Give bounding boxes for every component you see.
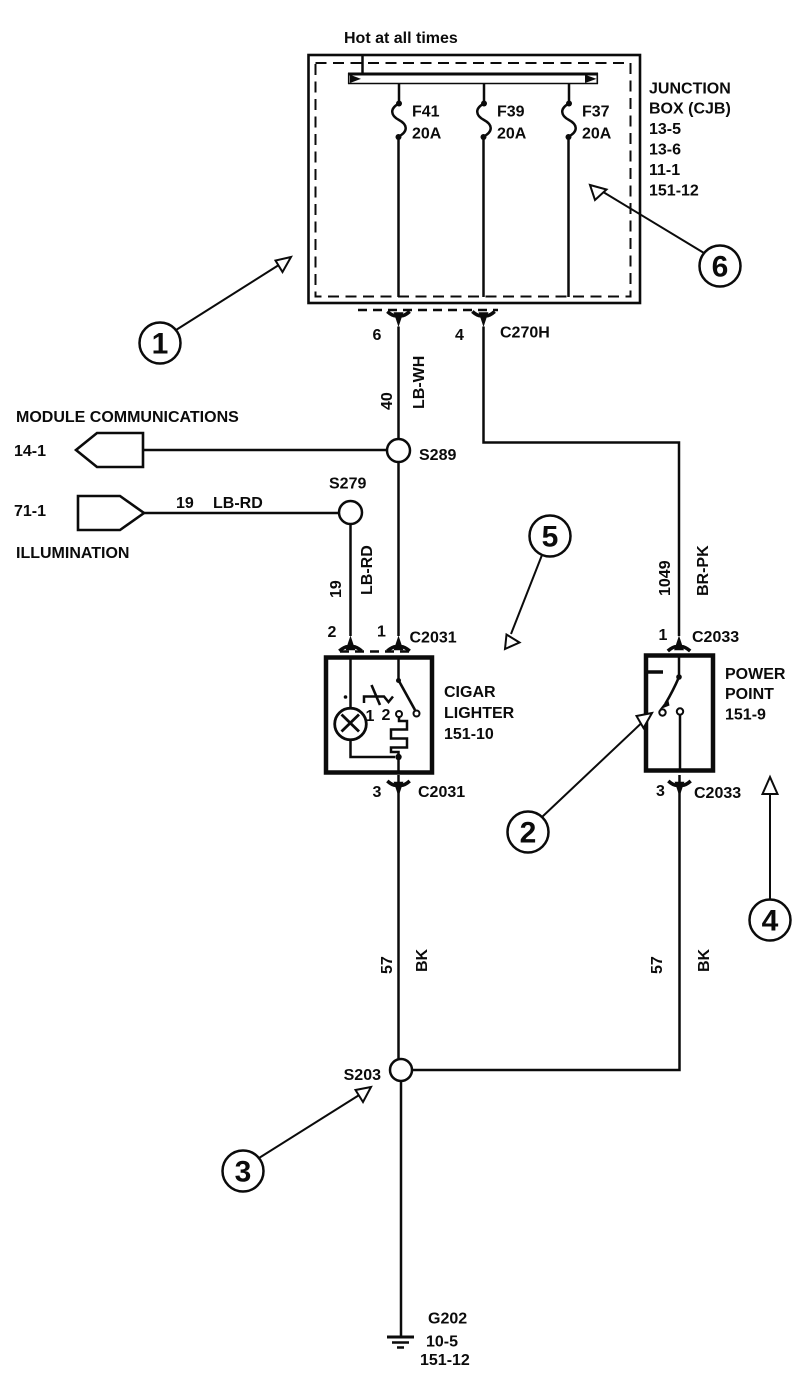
wire from C270H pin 6 to splice S289 [397, 327, 400, 440]
callout 6 [590, 185, 741, 287]
wire module communications to S289 [143, 449, 387, 452]
connector C2031 dashed line [340, 650, 412, 653]
svg-text:BK: BK [696, 948, 713, 972]
label CIGAR LIGHTER 151-10 [444, 684, 515, 743]
splice S289 [387, 439, 410, 462]
connector C2031 pin 3 arrow [387, 781, 409, 797]
svg-text:14-1: 14-1 [14, 443, 46, 460]
svg-text:LB-WH: LB-WH [411, 356, 428, 409]
connector C2031 pin 2 arrow [339, 636, 361, 652]
svg-text:POWER: POWER [725, 666, 786, 683]
wire illumination to S279 [144, 512, 339, 515]
svg-text:S279: S279 [329, 476, 366, 493]
wire S289 down to C2031 pin 1 [397, 462, 400, 636]
label POWER POINT 151-9 [725, 666, 786, 724]
callout 5 [505, 516, 571, 650]
connector C270H pin 4 arrow [472, 312, 494, 328]
lamp bottom wire [351, 740, 396, 757]
wire from C270H pin 4 to power point pin 1 [484, 327, 680, 637]
thermal contact slash [372, 685, 381, 705]
blade arrow tip [660, 699, 670, 710]
wire cigar lighter to S203 [397, 775, 400, 1059]
svg-text:BR-PK: BR-PK [695, 545, 712, 596]
svg-text:1: 1 [366, 708, 375, 725]
wire center terminal to box bottom [679, 715, 682, 771]
svg-text:ILLUMINATION: ILLUMINATION [16, 545, 129, 562]
svg-text:151-12: 151-12 [420, 1352, 470, 1369]
svg-text:3: 3 [235, 1156, 252, 1189]
callout 3 [223, 1087, 372, 1192]
connector C2031 pin 1 arrow [387, 636, 409, 652]
svg-text:F39: F39 [497, 104, 525, 121]
svg-text:57: 57 [649, 956, 666, 974]
svg-text:C2033: C2033 [694, 785, 741, 802]
splice S279 [339, 501, 362, 524]
svg-text:1: 1 [377, 624, 386, 641]
module communications off-page connector [76, 433, 143, 467]
center terminal circle [677, 708, 683, 714]
svg-text:MODULE COMMUNICATIONS: MODULE COMMUNICATIONS [16, 409, 239, 426]
connector C2033 pin 1 arrow [668, 636, 690, 652]
svg-text:2: 2 [520, 817, 537, 850]
switch terminal circle right [414, 711, 420, 717]
svg-text:2: 2 [328, 624, 337, 641]
power point switch blade [666, 677, 680, 704]
element terminal circle [396, 711, 402, 717]
power point pin1 internal wire [678, 656, 681, 676]
svg-text:13-5: 13-5 [649, 121, 681, 138]
switch blade [400, 682, 416, 710]
svg-text:4: 4 [455, 327, 464, 344]
svg-text:CIGAR: CIGAR [444, 684, 496, 701]
svg-text:20A: 20A [582, 126, 612, 143]
svg-text:C2031: C2031 [410, 630, 457, 647]
svg-text:POINT: POINT [725, 686, 774, 703]
svg-text:F41: F41 [412, 104, 440, 121]
power point contact bar [646, 670, 663, 674]
svg-text:S289: S289 [419, 447, 456, 464]
junction box outer solid border [309, 55, 641, 303]
blade terminal circle [659, 709, 665, 715]
fuse F41 20A [392, 84, 442, 297]
svg-text:151-10: 151-10 [444, 726, 494, 743]
svg-text:1049: 1049 [657, 560, 674, 596]
svg-text:19: 19 [328, 580, 345, 598]
svg-text:20A: 20A [497, 126, 527, 143]
svg-text:BOX (CJB): BOX (CJB) [649, 101, 731, 118]
thermal contact bar [364, 697, 393, 704]
bus bar [348, 73, 598, 84]
svg-text:LB-RD: LB-RD [359, 545, 376, 595]
fuse F39 20A [477, 84, 527, 297]
svg-text:151-9: 151-9 [725, 707, 766, 724]
connector C270H dashed line [358, 309, 498, 312]
switch pivot dot [676, 674, 682, 680]
splice S203 [390, 1059, 412, 1081]
svg-text:BK: BK [414, 948, 431, 972]
callout 4 [750, 777, 791, 941]
svg-text:G202: G202 [428, 1311, 467, 1328]
wire power point to S203 wire [412, 775, 680, 1070]
svg-text:Hot at all times: Hot at all times [344, 30, 458, 47]
svg-text:19: 19 [176, 495, 194, 512]
wire S279 down to C2031 pin 2 [349, 524, 352, 636]
svg-text:40: 40 [379, 392, 396, 410]
svg-text:C2033: C2033 [692, 629, 739, 646]
cigar lighter pin1 internal wire [397, 658, 400, 680]
svg-text:13-6: 13-6 [649, 142, 681, 159]
wire stub from box top to bus bar [361, 56, 364, 74]
callout 2 [508, 713, 653, 853]
svg-text:11-1: 11-1 [649, 162, 680, 179]
svg-text:1: 1 [659, 627, 668, 644]
callout 1 [140, 257, 292, 364]
power point box [646, 656, 713, 771]
svg-text:71-1: 71-1 [14, 503, 46, 520]
cigar lighter pin2 internal wire [349, 658, 352, 709]
ground G202 symbol [387, 1337, 414, 1348]
fuse F37 20A [562, 84, 612, 297]
connector C2033 pin 3 arrow [668, 781, 690, 797]
element bottom dot [395, 754, 401, 760]
cigar lighter box [326, 658, 432, 773]
svg-text:S203: S203 [344, 1067, 381, 1084]
svg-text:151-12: 151-12 [649, 183, 699, 200]
cigar lighter lamp [335, 708, 367, 740]
junction box name text [649, 81, 731, 200]
svg-text:57: 57 [379, 956, 396, 974]
svg-text:C2031: C2031 [418, 784, 465, 801]
svg-text:5: 5 [542, 521, 559, 554]
heating element [391, 717, 407, 757]
switch pivot dot [396, 678, 401, 683]
svg-text:20A: 20A [412, 126, 442, 143]
svg-text:JUNCTION: JUNCTION [649, 81, 731, 98]
connector C270H pin 6 arrow [387, 312, 409, 328]
svg-text:10-5: 10-5 [426, 1334, 458, 1351]
svg-text:C270H: C270H [500, 325, 550, 342]
svg-text:1: 1 [152, 328, 169, 361]
wire element to box bottom [397, 757, 400, 772]
svg-text:6: 6 [373, 327, 382, 344]
svg-text:3: 3 [373, 784, 382, 801]
svg-text:F37: F37 [582, 104, 610, 121]
svg-text:6: 6 [712, 251, 729, 284]
svg-text:4: 4 [762, 905, 779, 938]
svg-text:2: 2 [382, 707, 391, 724]
junction box inner dashed border [316, 63, 631, 297]
illumination off-page connector [78, 496, 144, 530]
svg-text:3: 3 [656, 783, 665, 800]
svg-text:LB-RD: LB-RD [213, 495, 263, 512]
small dot [344, 695, 348, 699]
svg-text:LIGHTER: LIGHTER [444, 705, 515, 722]
wire S203 to ground [400, 1081, 403, 1336]
